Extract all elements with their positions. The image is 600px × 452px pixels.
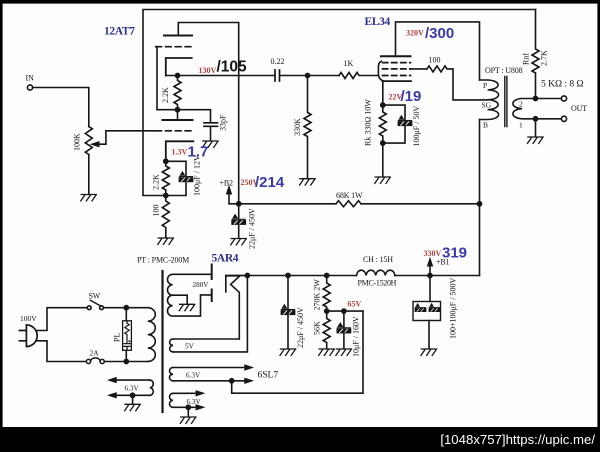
resistor Rs 100 xyxy=(427,66,447,72)
svg-text:100+100μF / 500V: 100+100μF / 500V xyxy=(449,278,458,339)
PT 280V winding xyxy=(167,274,210,316)
wire B+ takeoff xyxy=(173,276,247,352)
NFB loop wire xyxy=(143,10,536,196)
svg-text:2A: 2A xyxy=(90,349,100,358)
capacitor C 22uF/450V (B2) xyxy=(238,204,240,219)
wire V1a grid to V1b plate node xyxy=(157,47,178,110)
svg-text:CH : 15H: CH : 15H xyxy=(363,255,393,264)
wire choke to B1 xyxy=(395,275,480,277)
svg-text:12AT7: 12AT7 xyxy=(104,26,135,38)
ground 22uF xyxy=(280,349,296,355)
svg-text:65V: 65V xyxy=(348,300,362,309)
svg-text:/300: /300 xyxy=(425,25,454,42)
svg-text:1.3V: 1.3V xyxy=(172,148,188,157)
ground secondary xyxy=(528,137,544,143)
wire screen to OPT SG xyxy=(447,69,488,100)
svg-text:/105: /105 xyxy=(217,59,248,76)
wire cathode to bypass xyxy=(383,105,405,120)
OPT primary winding xyxy=(480,80,499,120)
node junction output/R 2.2K xyxy=(175,73,179,77)
node junction NFB/cathode xyxy=(164,193,168,197)
EL34 grid1 (dashed) xyxy=(383,75,411,77)
svg-text:5AR4: 5AR4 xyxy=(212,253,239,265)
svg-text:100K: 100K xyxy=(73,133,82,151)
svg-text:Rk 330Ω 10W: Rk 330Ω 10W xyxy=(364,99,373,146)
svg-text:2.2K: 2.2K xyxy=(152,174,161,190)
wire node to 33pF xyxy=(178,110,211,123)
V1b cathode xyxy=(166,141,194,161)
svg-text:+B2: +B2 xyxy=(220,179,234,188)
ground 56K xyxy=(319,349,335,355)
V1a cathode xyxy=(166,58,192,76)
PT primary winding xyxy=(148,308,156,362)
EL34 envelope left xyxy=(378,61,382,80)
wire 280V centre tap xyxy=(173,295,188,303)
wire cap to node xyxy=(383,125,405,143)
wire SRPP output node xyxy=(166,75,275,77)
V1b plate bar xyxy=(163,119,193,121)
wire 6.3V-1 top arrow xyxy=(173,367,246,369)
ground 6.3V-2 xyxy=(180,417,196,423)
wire 33pF to ground xyxy=(210,127,212,141)
capacitor C 100uF/50V xyxy=(398,116,411,125)
node junction +B1 xyxy=(428,273,432,277)
AC plug xyxy=(19,325,37,347)
node junction heater bias xyxy=(230,379,234,383)
capacitor 33pF xyxy=(204,123,218,127)
wire 6.3V-2 top arrow xyxy=(173,392,197,394)
svg-text:EL34: EL34 xyxy=(365,16,391,28)
wire cathode to bypass cap xyxy=(166,161,186,176)
ground V1b cathode xyxy=(158,238,174,244)
pot wiper arrow xyxy=(96,131,156,144)
ground pot xyxy=(81,195,97,201)
wire plug hot xyxy=(36,308,87,331)
wire plug neutral xyxy=(36,341,87,362)
svg-text:319: 319 xyxy=(442,245,467,262)
wire sec 2 to OUT xyxy=(536,98,562,100)
resistor R 100 xyxy=(162,196,169,238)
bottom black banner xyxy=(0,427,600,452)
svg-text:5 KΩ : 8 Ω: 5 KΩ : 8 Ω xyxy=(541,80,584,90)
node junction 10uF xyxy=(342,309,346,313)
resistor Rk 2.2K (V1b) xyxy=(162,161,169,195)
resistor Rg 330K xyxy=(304,76,311,179)
+B1 arrow xyxy=(429,264,431,276)
EL34 grid3 (dashed) xyxy=(383,62,411,64)
svg-text:[1048x757]https://upic.me/: [1048x757]https://upic.me/ xyxy=(440,432,595,447)
svg-text:OPT : U808: OPT : U808 xyxy=(485,66,523,75)
EL34 cathode bar xyxy=(383,80,412,82)
wire 65V node xyxy=(327,310,363,312)
svg-text:6.3V: 6.3V xyxy=(187,398,202,406)
wire filament to 5V top xyxy=(173,338,239,340)
svg-text:2: 2 xyxy=(519,100,523,109)
svg-text:2.7K: 2.7K xyxy=(540,50,549,66)
PT 6.3V winding 3 (left) xyxy=(150,380,154,395)
+B2 arrow xyxy=(229,192,239,204)
frame border right xyxy=(597,0,600,452)
resistor R 270K 2W xyxy=(323,276,330,312)
node junction V1b plate xyxy=(175,108,179,112)
node junction Rk bottom xyxy=(381,141,385,145)
resistor R 2.2K (SRPP) xyxy=(174,76,181,110)
node junction sec 1 xyxy=(533,117,537,121)
pilot lamp PL xyxy=(125,308,127,362)
svg-text:68K 1W: 68K 1W xyxy=(336,191,363,200)
wire 6.3V-3 bottom arrow xyxy=(116,394,150,396)
svg-text:P: P xyxy=(483,81,487,90)
node junction 6.3V-2 xyxy=(186,405,190,409)
input terminal xyxy=(27,85,32,90)
capacitor C 0.22 xyxy=(275,70,280,81)
resistor Rk 330ohm 10W xyxy=(379,105,386,143)
wire switch to PT xyxy=(104,307,148,309)
5AR4 plate 1 xyxy=(211,265,213,280)
node junction PL top xyxy=(124,306,128,310)
svg-text:100μF / 50V: 100μF / 50V xyxy=(412,106,421,147)
capacitor C 100+100uF/500V xyxy=(429,276,431,302)
svg-text:SG: SG xyxy=(482,101,492,110)
5AR4 plate 2 xyxy=(211,290,213,302)
V1a grid (dashed) xyxy=(156,46,191,48)
capacitor C 22uF/450V (psu) xyxy=(287,276,289,309)
node junction 22uF xyxy=(286,273,290,277)
frame border left xyxy=(0,0,3,452)
fuse 2A xyxy=(86,359,90,363)
svg-text:PMC-1520H: PMC-1520H xyxy=(358,279,397,288)
ground 6.3V-3 xyxy=(125,404,141,410)
wire pot to ground xyxy=(88,155,90,195)
svg-text:33pF: 33pF xyxy=(219,114,228,131)
potentiometer VR 100K xyxy=(85,127,92,155)
svg-text:5V: 5V xyxy=(185,343,195,351)
wire rectifier output rail xyxy=(226,275,357,277)
svg-text:/214: /214 xyxy=(255,174,285,191)
node junction rectifier out xyxy=(245,273,249,277)
svg-text:B: B xyxy=(483,121,488,130)
op V1a plate bar xyxy=(164,35,192,37)
svg-text:6.3V: 6.3V xyxy=(186,372,201,380)
resistor R 56K xyxy=(323,311,330,348)
wire 6.3V-1 bottom arrow xyxy=(173,380,246,382)
svg-text:320V: 320V xyxy=(406,29,424,38)
node junction B tap xyxy=(477,202,481,206)
PT core xyxy=(161,271,163,412)
wire EL34 cathode xyxy=(382,81,384,105)
wire g2 to screen resistor xyxy=(411,68,428,70)
switch SW xyxy=(87,306,91,310)
svg-text:22μF / 450V: 22μF / 450V xyxy=(296,307,305,348)
svg-text:100μF / 12V: 100μF / 12V xyxy=(193,155,202,196)
node junction B2 xyxy=(237,202,241,206)
frame border top xyxy=(0,0,600,4)
svg-text:270K 2W: 270K 2W xyxy=(313,279,322,311)
node junction 65V xyxy=(325,309,329,313)
svg-text:1: 1 xyxy=(519,121,523,130)
svg-text:100V: 100V xyxy=(20,314,37,323)
svg-text:6.3V: 6.3V xyxy=(125,385,140,393)
ground 330K xyxy=(300,179,316,185)
wire sec 1 to OUT xyxy=(536,118,562,120)
wire 6.3V-2 bottom arrow xyxy=(173,406,197,408)
ground 10uF xyxy=(336,349,352,355)
wire B2 rail left xyxy=(239,203,336,205)
wire input to pot xyxy=(33,88,89,127)
svg-text:1.7: 1.7 xyxy=(188,144,209,161)
ground EL34 cathode xyxy=(375,177,391,183)
5AR4 filament xyxy=(226,276,240,339)
wire 65V to heater bias xyxy=(232,311,363,393)
svg-text:OUT: OUT xyxy=(571,104,587,113)
OPT secondary winding xyxy=(513,99,536,119)
node junction grid/330K xyxy=(305,73,309,77)
svg-text:6SL7: 6SL7 xyxy=(258,371,279,381)
ground B2 cap xyxy=(231,239,247,245)
svg-text:2.2K: 2.2K xyxy=(161,87,170,103)
node junction cathode xyxy=(381,103,385,107)
svg-text:1K: 1K xyxy=(344,59,354,68)
capacitor C 100uF/12V xyxy=(179,172,192,181)
OUT hot terminal xyxy=(561,96,566,101)
resistor Rnf 2.7K xyxy=(532,10,539,99)
svg-text:330V: 330V xyxy=(424,249,442,258)
wire to ground xyxy=(187,407,189,416)
EL34 grid2 (dashed) xyxy=(383,68,411,70)
choke CH 15H xyxy=(357,270,395,275)
capacitor C 10uF/160V xyxy=(343,311,345,327)
OUT cold terminal xyxy=(561,116,566,121)
wire Rk to ground xyxy=(382,143,384,176)
svg-text:130V: 130V xyxy=(199,66,217,75)
PT 6.3V winding 1 xyxy=(169,368,173,381)
ground centre tap xyxy=(179,304,195,310)
svg-text:100: 100 xyxy=(429,56,441,65)
node junction PL bottom xyxy=(124,359,128,363)
wire cap to node xyxy=(166,181,186,195)
PT 6.3V winding 2 xyxy=(170,393,174,407)
svg-text:330K: 330K xyxy=(293,118,302,136)
svg-text:280V: 280V xyxy=(193,281,210,289)
node junction divider top xyxy=(325,273,329,277)
svg-text:Rnf: Rnf xyxy=(522,53,531,65)
wire 6.3V-3 top arrow xyxy=(116,379,150,381)
V1b grid (dashed) xyxy=(156,130,191,132)
wire fuse to PT xyxy=(104,361,147,363)
svg-text:/19: /19 xyxy=(401,88,422,105)
svg-text:0.22: 0.22 xyxy=(271,57,285,66)
svg-text:SW: SW xyxy=(89,292,101,301)
node junction sec 2 xyxy=(533,96,537,100)
wire B2 rail right xyxy=(361,203,480,205)
wire OPT B down to B1 xyxy=(479,120,481,276)
wire cap to grid node xyxy=(280,75,339,77)
resistor R 1K xyxy=(339,73,378,79)
svg-text:22μF / 450V: 22μF / 450V xyxy=(248,208,257,249)
ground B1 cap xyxy=(421,349,437,355)
node junction 6.3V-3 xyxy=(131,393,135,397)
svg-text:IN: IN xyxy=(26,74,35,83)
wire EL34 plate to OPT P xyxy=(396,22,480,80)
resistor R 68K 1W xyxy=(336,201,361,207)
node junction V1b cathode xyxy=(164,159,168,163)
svg-text:PL: PL xyxy=(113,333,122,342)
svg-text:100: 100 xyxy=(152,205,161,217)
OPT core xyxy=(505,77,507,127)
wire sec 1 to ground xyxy=(535,119,537,137)
ground 33pF xyxy=(203,141,219,147)
svg-text:10μF / 160V: 10μF / 160V xyxy=(352,316,361,357)
EL34 plate bar xyxy=(381,55,411,57)
PT 5V winding xyxy=(170,339,173,352)
wire to ground xyxy=(132,395,134,403)
wire V1a plate to +B2 line xyxy=(178,23,238,204)
svg-text:PT : PMC-200M: PT : PMC-200M xyxy=(137,256,189,265)
wire V1b plate lead xyxy=(177,110,179,120)
svg-text:56K: 56K xyxy=(313,321,322,335)
